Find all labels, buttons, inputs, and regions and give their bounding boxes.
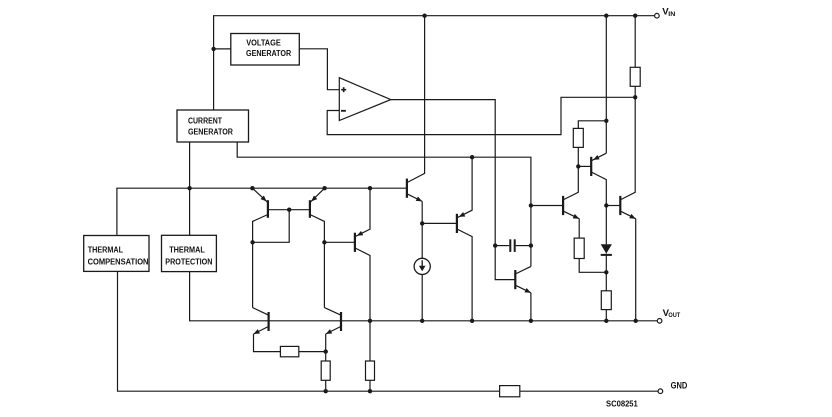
node Q2 emitter on bias rail <box>322 186 326 190</box>
node R4 on GND rail <box>324 389 328 393</box>
label V_OUT <box>663 308 681 319</box>
wire V_IN rail with left drop to current generator <box>214 16 655 110</box>
label V_IN <box>662 7 675 18</box>
wire VOUT rail to R6 <box>369 321 371 361</box>
svg-text:COMPENSATION: COMPENSATION <box>88 256 149 266</box>
wire GND rail right of resistor <box>520 390 658 392</box>
transistor Q4 (NPN) <box>407 16 425 259</box>
label THERMAL COMPENSATION <box>88 244 149 266</box>
resistor R3 (Q10 emitter) <box>280 346 298 356</box>
svg-text:PROTECTION: PROTECTION <box>165 256 212 266</box>
svg-text:GENERATOR: GENERATOR <box>188 126 233 136</box>
wire diode node to R7 <box>605 272 607 291</box>
transistor Q11 (NPN) <box>324 308 341 352</box>
capacitor C1 <box>495 239 531 252</box>
node cap right <box>529 243 533 247</box>
wire emitter node to R4 <box>325 352 327 361</box>
svg-text:VOLTAGE: VOLTAGE <box>246 38 281 48</box>
terminal V_IN open circle <box>655 13 660 18</box>
wire base tie down to Q1 collector node <box>253 210 290 243</box>
wire op-amp inverting input feedback <box>327 97 635 134</box>
wire R7 to VOUT rail <box>605 310 607 321</box>
current source I1 <box>414 258 430 274</box>
node current source on VOUT rail <box>420 319 424 323</box>
label VOLTAGE GENERATOR <box>246 38 292 58</box>
wire R1 bottom to junction <box>634 86 636 97</box>
wire voltage generator input <box>214 48 231 50</box>
node Q8 collector / feedback junction <box>633 95 637 99</box>
wire current source to VOUT rail <box>421 275 423 321</box>
node Q1 collector junction <box>250 240 254 244</box>
wire R1 top to V_IN rail <box>634 16 636 68</box>
svg-text:THERMAL: THERMAL <box>88 244 124 254</box>
transistor Q6 (NPN) <box>563 166 579 238</box>
node R1 on V_IN rail <box>633 14 637 18</box>
wire R5 bottom to Q6 collector node <box>577 147 579 166</box>
op-amp U1 triangle <box>339 78 391 121</box>
wire R6 to GND rail <box>369 380 371 391</box>
wire thermal protection to VOUT rail / VOUT rail <box>190 272 658 321</box>
resistor R2 (Q6 emitter) <box>574 238 584 258</box>
node Q5 emitter on bias wire <box>470 155 474 159</box>
node current generator / thermal protection junction <box>187 186 191 190</box>
wire Q1 collector node down to Q10 <box>252 242 254 307</box>
label SC08251 <box>606 399 638 409</box>
transistor Q7 (PNP) <box>591 153 606 244</box>
op-amp plus sign <box>341 87 346 92</box>
svg-text:CURRENT: CURRENT <box>188 115 223 125</box>
label THERMAL PROTECTION <box>165 244 212 266</box>
node R7 on VOUT rail <box>604 319 608 323</box>
wire Q8 base <box>606 205 620 207</box>
node Q8 emitter on VOUT rail <box>634 319 638 323</box>
wire V_IN rail down to Q7 emitter <box>605 16 607 154</box>
transistor Q5 (PNP) <box>457 157 472 321</box>
wire bias rail to thermal compensation <box>117 188 407 235</box>
resistor R1 <box>630 67 640 86</box>
node on V_IN rail above Q7 <box>604 14 608 18</box>
node Q6 base corner junction <box>529 203 533 207</box>
wire Q6 collector node to Q7 base <box>578 165 591 167</box>
node Q6 collector / Q7 base junction <box>576 164 580 168</box>
terminal GND open circle <box>658 389 663 394</box>
wire R4 to GND rail <box>325 380 327 391</box>
wire R3 to shared emitter node <box>299 351 326 353</box>
resistor R7 <box>601 291 611 310</box>
label GND <box>671 381 688 391</box>
wire Q2 collector node to Q3 base <box>324 241 355 243</box>
resistor R6 <box>366 361 375 380</box>
node shared emitter junction <box>324 349 328 353</box>
node cap left <box>493 243 497 247</box>
wire R5 top to Q7 emitter node <box>578 121 606 129</box>
wire op-amp output to compensation node <box>391 100 516 280</box>
node diode cathode junction <box>604 270 608 274</box>
node Q5 collector on VOUT rail <box>470 319 474 323</box>
wire Q4 emitter to Q5 base <box>422 222 457 224</box>
transistor Q9 (NPN) <box>515 266 531 320</box>
node Q3 collector on VOUT rail <box>368 319 372 323</box>
wire Q2 collector node down to Q11 <box>323 242 325 307</box>
node Q9 emitter on VOUT rail <box>529 319 533 323</box>
resistor R5 <box>573 128 583 147</box>
wire current generator left output <box>189 142 191 235</box>
wire R2 to diode node <box>579 259 606 273</box>
svg-text:GENERATOR: GENERATOR <box>246 48 292 58</box>
node junction on V_IN drop to voltage generator <box>211 47 215 51</box>
diode D1 <box>601 244 612 272</box>
transistor Q3 (PNP) <box>355 188 370 321</box>
resistor R4 <box>321 361 330 380</box>
svg-text:THERMAL: THERMAL <box>169 244 205 254</box>
transistor Q2 (PNP) <box>289 188 324 242</box>
node on V_IN rail above Q4 <box>422 14 426 18</box>
transistor Q8 (NPN) <box>620 97 635 320</box>
node Q4 emitter to Q5 base <box>420 221 424 225</box>
block VOLTAGE GENERATOR <box>231 34 299 66</box>
wire current generator right output rail <box>237 142 563 206</box>
block CURRENT GENERATOR <box>177 110 249 142</box>
label CURRENT GENERATOR <box>188 115 233 136</box>
svg-text:OUT: OUT <box>668 312 680 319</box>
svg-text:IN: IN <box>668 11 675 18</box>
node R6 on GND rail <box>368 389 372 393</box>
transistor Q1 (PNP) <box>252 188 289 242</box>
op-amp minus sign <box>341 110 346 112</box>
node Q7 collector / Q8 base junction <box>604 203 608 207</box>
transistor Q10 (NPN) <box>253 308 281 352</box>
node Q1/Q2 base tie <box>287 208 291 212</box>
resistor R8 (GND adjust) <box>500 386 520 397</box>
terminal V_OUT open circle <box>657 319 662 324</box>
node Q2 collector junction <box>322 240 326 244</box>
node Q1 emitter on bias rail <box>250 186 254 190</box>
wire thermal compensation to GND rail / GND rail left <box>118 271 500 391</box>
block THERMAL PROTECTION <box>162 235 217 271</box>
wire voltage generator output to op-amp + <box>299 49 339 90</box>
block THERMAL COMPENSATION <box>84 236 149 272</box>
svg-text:GND: GND <box>671 381 688 391</box>
wire Q6-base node down through cap node to Q9 collector <box>530 206 532 267</box>
node Q7 emitter junction <box>604 119 608 123</box>
svg-text:SC08251: SC08251 <box>606 399 638 409</box>
node Q3 emitter on bias rail <box>368 186 372 190</box>
